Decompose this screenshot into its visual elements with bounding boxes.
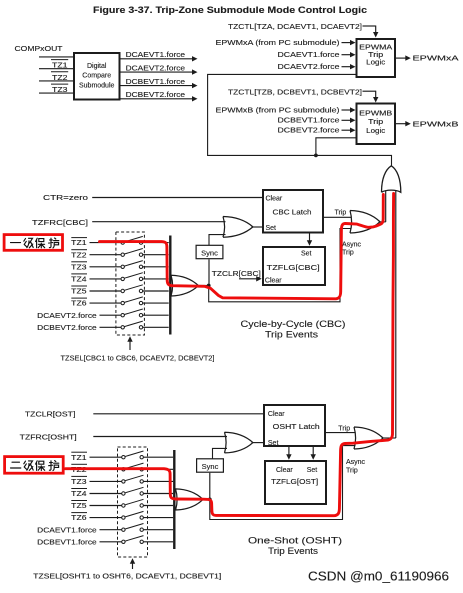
label Cycle-by-Cycle (CBC) Trip Events bbox=[241, 319, 346, 339]
switch OSHT TZ1 bbox=[90, 451, 174, 459]
svg-text:TZ4: TZ4 bbox=[71, 277, 86, 284]
svg-text:Set: Set bbox=[301, 251, 312, 258]
svg-text:Trip: Trip bbox=[338, 426, 350, 433]
wire CBC Trip output bbox=[324, 216, 352, 218]
svg-text:EPWMxB: EPWMxB bbox=[413, 121, 459, 128]
wire node to Sync (CBC) bbox=[208, 259, 210, 285]
svg-text:Digital: Digital bbox=[87, 63, 107, 70]
block Sync (OSHT) bbox=[197, 459, 224, 472]
svg-text:Clear: Clear bbox=[276, 467, 293, 474]
node TZ3 OSHT select label bbox=[71, 476, 87, 486]
wire COMPxOUT input bbox=[39, 56, 74, 58]
switch OSHT TZ5 bbox=[90, 499, 174, 507]
wire TZ2 input bbox=[39, 80, 74, 82]
label One-Shot (OSHT) Trip Events bbox=[248, 535, 342, 556]
wire OSHT latch to TZFLG Set arrow bbox=[311, 447, 316, 460]
wire CBC bank OR output to sync node bbox=[198, 285, 211, 287]
switch CBC TZ3 bbox=[90, 261, 169, 269]
wire TZCTL-A bracket into EPWMA bbox=[363, 26, 379, 38]
wire DCBEVT1.force arrow into EPWMB bbox=[342, 118, 356, 123]
or-gate CBC force (set) bbox=[223, 217, 253, 238]
svg-text:TZCLR[OST]: TZCLR[OST] bbox=[25, 412, 76, 419]
wire TZFRC[CBC] to force OR bbox=[92, 221, 225, 223]
svg-text:EPWMB: EPWMB bbox=[359, 110, 392, 117]
svg-text:DCAEVT1.force: DCAEVT1.force bbox=[37, 527, 97, 534]
node TZ5 OSHT select label bbox=[71, 501, 87, 511]
svg-text:TZ5: TZ5 bbox=[71, 503, 86, 510]
svg-text:Logic: Logic bbox=[366, 128, 386, 135]
switch CBC DCBEVT2.force bbox=[100, 321, 169, 329]
switch OSHT TZ4 bbox=[90, 487, 174, 495]
wire EPWMxA output bbox=[396, 55, 411, 60]
wire trip feedback branch to EPWMB bbox=[316, 138, 356, 156]
svg-text:EPWMxB (from PC submodule): EPWMxB (from PC submodule) bbox=[216, 107, 340, 114]
svg-text:TZ1: TZ1 bbox=[71, 240, 86, 247]
svg-text:TZSEL[CBC1 to CBC6, DCAEVT2, D: TZSEL[CBC1 to CBC6, DCAEVT2, DCBEVT2] bbox=[61, 355, 215, 362]
wire DCBEVT2.force output with arrow bbox=[121, 96, 198, 101]
svg-text:TZ6: TZ6 bbox=[71, 301, 86, 308]
or-gate trip combine (points up) bbox=[382, 166, 401, 193]
wire DCAEVT2.force output with arrow bbox=[121, 69, 198, 74]
svg-text:CBC Latch: CBC Latch bbox=[273, 209, 312, 216]
node TZ1 CBC select label bbox=[71, 238, 87, 248]
svg-text:TZ1: TZ1 bbox=[71, 455, 86, 462]
svg-text:TZ3: TZ3 bbox=[71, 264, 86, 271]
svg-text:Trip: Trip bbox=[368, 52, 383, 59]
svg-text:Trip Events: Trip Events bbox=[268, 546, 319, 556]
or-gate CBC async trip bbox=[350, 211, 380, 234]
wire force OR to CBC latch Set bbox=[252, 226, 264, 228]
svg-text:TZ5: TZ5 bbox=[71, 289, 86, 296]
block OSHT trip select (dashed) bbox=[118, 447, 148, 557]
switch OSHT TZ6 bbox=[90, 511, 174, 519]
wire OSHT latch to TZFLG Clear arrow bbox=[286, 447, 291, 460]
wire CBC latch to TZFLG Set arrow bbox=[307, 234, 312, 246]
svg-text:Clear: Clear bbox=[268, 411, 285, 418]
svg-text:TZCTL[TZA, DCAEVT1, DCAEVT2]: TZCTL[TZA, DCAEVT1, DCAEVT2] bbox=[228, 24, 362, 31]
wire OSHT async input to big OR bbox=[395, 191, 397, 438]
svg-text:Trip: Trip bbox=[342, 249, 354, 256]
svg-text:Cycle-by-Cycle (CBC): Cycle-by-Cycle (CBC) bbox=[241, 319, 346, 329]
junction OSHT async node bbox=[208, 498, 212, 502]
block TZFLG[OST] bbox=[265, 461, 326, 504]
svg-text:Async: Async bbox=[346, 459, 366, 466]
node TZ4 CBC select label bbox=[71, 274, 87, 284]
svg-text:TZFRC[OSHT]: TZFRC[OSHT] bbox=[20, 434, 77, 441]
node TZ2 OSHT select label bbox=[71, 464, 87, 474]
wire OSHT Sync to force OR bbox=[213, 448, 228, 458]
svg-text:Clear: Clear bbox=[265, 278, 282, 285]
wire OSHT bank OR output to sync node bbox=[202, 498, 212, 500]
block TZFLG[CBC] bbox=[263, 247, 325, 285]
svg-text:Trip: Trip bbox=[368, 119, 383, 126]
switch CBC TZ6 bbox=[90, 297, 169, 305]
svg-text:Trip: Trip bbox=[335, 209, 347, 216]
block U-EPWMB Trip Logic bbox=[357, 104, 396, 145]
svg-text:Set: Set bbox=[266, 225, 277, 232]
wire OSHT async OR output to big OR riser bbox=[382, 437, 396, 439]
svg-text:Submodule: Submodule bbox=[79, 82, 115, 89]
svg-text:TZ2: TZ2 bbox=[71, 252, 86, 259]
svg-text:Trip: Trip bbox=[346, 468, 358, 475]
node TZ6 OSHT select label bbox=[71, 513, 87, 523]
wire DCAEVT2.force arrow into EPWMA bbox=[342, 64, 356, 69]
bus OSHT OR input bar bbox=[173, 450, 175, 549]
wire CBC Sync to force OR bbox=[209, 235, 226, 246]
node TZ4 OSHT select label bbox=[71, 489, 87, 499]
svg-text:Set: Set bbox=[268, 440, 279, 447]
svg-text:DCBEVT1.force: DCBEVT1.force bbox=[37, 539, 97, 546]
switch OSHT TZ3 bbox=[90, 475, 174, 483]
node TZ1 input label bbox=[51, 60, 68, 70]
svg-text:DCAEVT2.force: DCAEVT2.force bbox=[37, 313, 97, 320]
svg-text:One-Shot (OSHT): One-Shot (OSHT) bbox=[248, 535, 342, 545]
annotation text first-level protection (CJK strokes) bbox=[11, 238, 59, 248]
svg-text:TZCLR[CBC]: TZCLR[CBC] bbox=[212, 271, 261, 278]
wire node to Sync (OSHT) bbox=[209, 473, 211, 500]
wire EPWMxA (from PC submodule) arrow into EPWMA bbox=[342, 40, 356, 45]
svg-text:DCAEVT2.force: DCAEVT2.force bbox=[278, 64, 340, 71]
node TZ5 CBC select label bbox=[71, 286, 87, 296]
node TZ3 input label bbox=[51, 84, 68, 94]
block U-EPWMA Trip Logic bbox=[357, 39, 396, 77]
svg-text:CTR=zero: CTR=zero bbox=[43, 195, 88, 202]
switch OSHT DCAEVT1.force bbox=[100, 524, 174, 532]
switch CBC TZ4 bbox=[90, 273, 169, 281]
wire TZ1 input bbox=[39, 68, 74, 70]
wire DCAEVT1.force arrow into EPWMA bbox=[342, 52, 356, 57]
wire OSHT Trip output bbox=[326, 432, 356, 434]
switch OSHT TZ2 bbox=[90, 463, 174, 471]
svg-text:Sync: Sync bbox=[202, 462, 219, 471]
svg-text:Set: Set bbox=[307, 467, 318, 474]
wire TZSEL OSHT arrow bbox=[130, 558, 135, 569]
junction trip feedback node bbox=[314, 154, 318, 158]
wire CBC async OR output to big OR bbox=[379, 221, 386, 223]
label Async Trip (CBC) bbox=[342, 241, 362, 256]
switch CBC DCAEVT2.force bbox=[100, 309, 169, 317]
svg-text:Figure 3-37. Trip-Zone Submodu: Figure 3-37. Trip-Zone Submodule Mode Co… bbox=[93, 5, 367, 15]
annotation red trace first-level protection path bbox=[100, 195, 384, 299]
wire force OR to OSHT latch Set bbox=[252, 442, 265, 444]
wire trip feedback loop from big OR to EPWMA bbox=[208, 74, 392, 165]
svg-text:DCAEVT1.force: DCAEVT1.force bbox=[126, 52, 186, 59]
wire EPWMxB output bbox=[396, 121, 411, 126]
block OSHT Latch bbox=[264, 405, 325, 447]
or-gate CBC trip events (8-input) bbox=[171, 275, 198, 296]
annotation red box second-level protection bbox=[5, 457, 64, 474]
switch CBC TZ5 bbox=[90, 285, 169, 293]
svg-text:DCBEVT1.force: DCBEVT1.force bbox=[278, 118, 340, 125]
svg-text:EPWMxA: EPWMxA bbox=[413, 56, 459, 63]
node TZ6 CBC select label bbox=[71, 298, 87, 308]
svg-text:DCAEVT2.force: DCAEVT2.force bbox=[126, 66, 186, 73]
wire DCAEVT1.force output with arrow bbox=[121, 56, 198, 61]
or-gate OSHT async trip bbox=[354, 427, 383, 449]
wire CBC async input to big OR bbox=[385, 191, 387, 222]
svg-text:DCBEVT2.force: DCBEVT2.force bbox=[37, 325, 97, 332]
node TZ1 OSHT select label bbox=[71, 452, 87, 462]
svg-text:Sync: Sync bbox=[201, 249, 218, 258]
switch CBC TZ2 bbox=[90, 249, 169, 257]
svg-text:DCBEVT2.force: DCBEVT2.force bbox=[126, 92, 186, 99]
or-gate OSHT force (set) bbox=[225, 432, 253, 453]
block Digital Compare Submodule bbox=[74, 53, 120, 100]
annotation red box first-level protection bbox=[4, 235, 62, 251]
svg-text:TZFRC[CBC]: TZFRC[CBC] bbox=[32, 220, 88, 227]
wire TZCLR[CBC] arrow to TZFLG Clear bbox=[239, 276, 262, 281]
block Sync (CBC) bbox=[196, 245, 223, 258]
label Async Trip (OSHT) bbox=[346, 459, 366, 475]
junction CBC async node bbox=[207, 284, 211, 288]
svg-text:DCBEVT1.force: DCBEVT1.force bbox=[126, 79, 186, 86]
wire CTR=zero to CBC latch Clear bbox=[92, 197, 263, 199]
wire TZ3 input bbox=[39, 92, 74, 94]
svg-text:TZ6: TZ6 bbox=[71, 515, 86, 522]
wire TZCLR[OST] to OSHT latch Clear bbox=[93, 413, 264, 415]
wire TZCTL-B bracket into EPWMB bbox=[363, 91, 379, 103]
svg-text:EPWMxA (from PC submodule): EPWMxA (from PC submodule) bbox=[216, 40, 340, 47]
svg-text:Clear: Clear bbox=[266, 196, 283, 203]
block CBC trip select (dashed) bbox=[116, 232, 144, 335]
node TZ2 CBC select label bbox=[71, 250, 87, 260]
svg-text:Logic: Logic bbox=[366, 60, 386, 67]
svg-text:Trip Events: Trip Events bbox=[265, 330, 319, 340]
svg-text:TZ3: TZ3 bbox=[71, 479, 86, 486]
svg-text:COMPxOUT: COMPxOUT bbox=[15, 46, 64, 53]
svg-text:CSDN @m0_61190966: CSDN @m0_61190966 bbox=[308, 568, 449, 583]
bus CBC OR input bar bbox=[169, 236, 171, 335]
svg-text:TZCTL[TZB, DCBEVT1, DCBEVT2]: TZCTL[TZB, DCBEVT1, DCBEVT2] bbox=[228, 89, 362, 96]
wire OSHT async path to async OR bbox=[210, 446, 356, 520]
svg-text:TZ4: TZ4 bbox=[71, 491, 86, 498]
switch CBC TZ1 bbox=[90, 236, 169, 244]
svg-text:Compare: Compare bbox=[82, 73, 111, 80]
svg-text:TZSEL[OSHT1 to OSHT6, DCAEVT1,: TZSEL[OSHT1 to OSHT6, DCAEVT1, DCBEVT1] bbox=[33, 574, 221, 581]
annotation red trace second-level protection path bbox=[66, 194, 394, 516]
svg-text:DCAEVT1.force: DCAEVT1.force bbox=[278, 52, 340, 59]
node TZ3 CBC select label bbox=[71, 262, 87, 272]
wire DCBEVT1.force output with arrow bbox=[121, 83, 198, 88]
annotation text second-level protection (CJK strokes) bbox=[11, 461, 59, 471]
wire TZFRC[OSHT] to force OR bbox=[93, 436, 227, 438]
wire CBC async path to async OR bbox=[209, 229, 352, 302]
block CBC Latch bbox=[263, 190, 323, 233]
node TZ2 input label bbox=[51, 72, 68, 82]
svg-text:Async: Async bbox=[342, 241, 362, 248]
wire TZSEL CBC arrow bbox=[127, 336, 132, 350]
svg-text:TZFLG[CBC]: TZFLG[CBC] bbox=[267, 265, 320, 272]
switch OSHT DCBEVT1.force bbox=[100, 536, 174, 544]
wire EPWMxB (from PC submodule) arrow into EPWMB bbox=[342, 107, 356, 112]
svg-text:EPWMA: EPWMA bbox=[359, 44, 392, 51]
wire DCBEVT2.force arrow into EPWMB bbox=[342, 128, 356, 133]
svg-text:OSHT Latch: OSHT Latch bbox=[273, 424, 320, 431]
svg-text:DCBEVT2.force: DCBEVT2.force bbox=[278, 128, 340, 135]
or-gate OSHT trip events (8-input) bbox=[176, 489, 204, 510]
svg-text:TZFLG[OST]: TZFLG[OST] bbox=[271, 479, 318, 486]
